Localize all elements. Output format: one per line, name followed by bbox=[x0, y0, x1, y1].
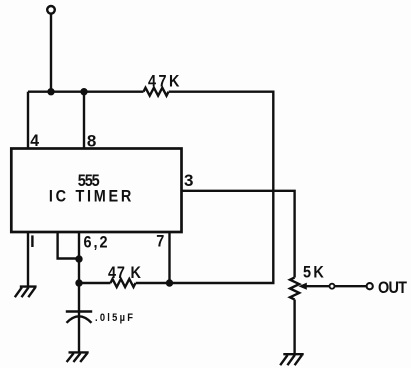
svg-text:7: 7 bbox=[156, 233, 164, 251]
svg-text:6,2: 6,2 bbox=[84, 233, 110, 251]
svg-text:IC TIMER: IC TIMER bbox=[49, 187, 134, 205]
svg-text:47K: 47K bbox=[148, 72, 182, 90]
svg-text:8: 8 bbox=[87, 132, 96, 151]
svg-text:4: 4 bbox=[30, 132, 40, 151]
svg-text:OUT: OUT bbox=[378, 279, 407, 297]
svg-text:5K: 5K bbox=[303, 264, 326, 282]
svg-text:.0l5µF: .0l5µF bbox=[95, 313, 135, 325]
svg-text:3: 3 bbox=[184, 171, 193, 190]
svg-text:47 K: 47 K bbox=[108, 264, 142, 282]
